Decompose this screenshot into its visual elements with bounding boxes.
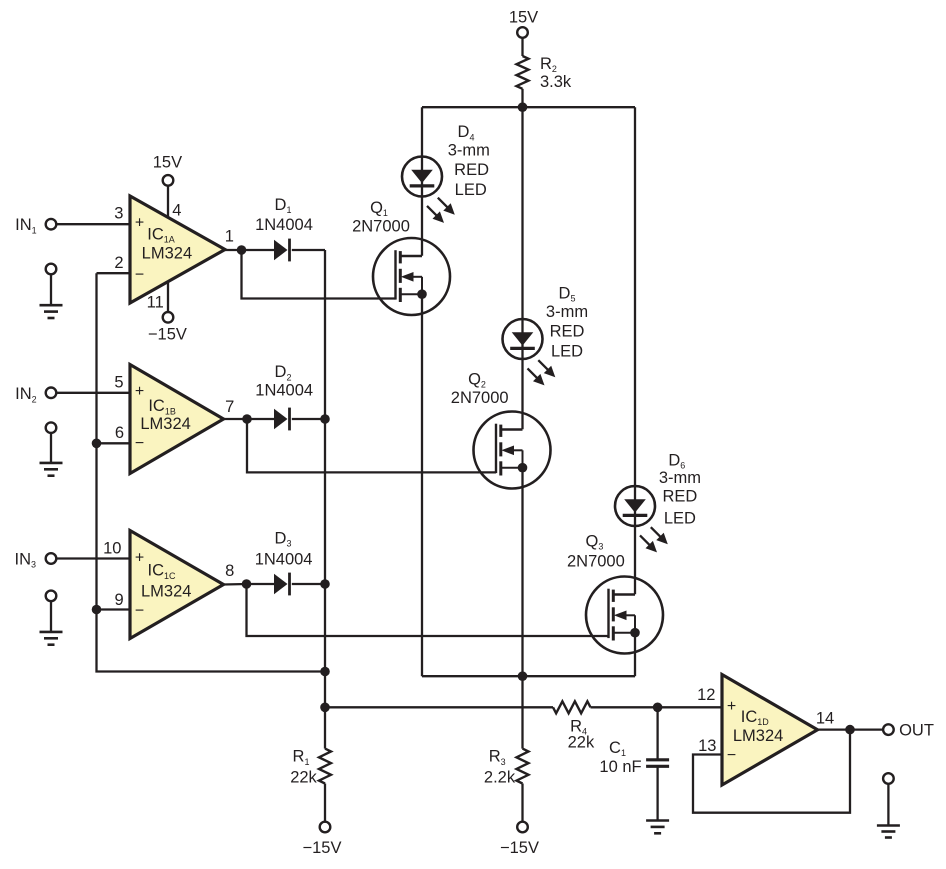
label D5 value [546, 285, 588, 361]
wire Q1 source down [421, 294, 423, 676]
svg-text:11: 11 [147, 293, 164, 311]
label pin 9 [115, 591, 124, 609]
svg-text:3-mm: 3-mm [448, 142, 490, 160]
svg-text:−: − [727, 747, 736, 764]
label Q3 value [567, 532, 625, 570]
label pin 3 [114, 205, 123, 223]
svg-text:1: 1 [225, 228, 234, 246]
wire IC1B output [224, 418, 248, 420]
label D6 value [659, 452, 701, 528]
svg-text:−15V: −15V [303, 839, 342, 857]
resistor R1 [290, 748, 331, 787]
terminal IN1 [15, 216, 56, 235]
wire R1 to -15V [324, 784, 326, 822]
wire IN2 to pin 5 [56, 392, 129, 394]
svg-text:−15V: −15V [500, 839, 539, 857]
label pin 2 [114, 254, 123, 272]
svg-text:−: − [135, 435, 144, 452]
node cathode bus to node rail junction [320, 703, 330, 713]
wire diode cathode bus [324, 250, 326, 749]
op-amp IC1A [130, 196, 225, 303]
op-amp IC1D [722, 675, 818, 786]
wire source rail [422, 675, 635, 677]
node bus-cathode junction [320, 667, 330, 677]
node IC1B output junction [242, 414, 252, 424]
svg-text:RED: RED [454, 161, 489, 179]
svg-text:D1: D1 [275, 196, 292, 215]
svg-text:2N7000: 2N7000 [451, 389, 509, 407]
label D1 value [255, 196, 313, 234]
transistor Q3 [586, 577, 663, 654]
wire D2 cathode to bus [292, 418, 325, 420]
svg-text:−: − [135, 603, 144, 620]
label pin 12 [697, 686, 715, 704]
svg-text:LED: LED [551, 343, 583, 361]
svg-text:9: 9 [115, 591, 124, 609]
label D2 value [255, 363, 313, 399]
svg-text:22k: 22k [568, 734, 595, 752]
wire top rail [422, 106, 635, 108]
svg-text:2N7000: 2N7000 [352, 217, 410, 235]
label pin 6 [115, 424, 124, 442]
node top rail junction [518, 102, 528, 112]
label pin 7 [225, 398, 234, 416]
label pin 5 [114, 373, 123, 391]
capacitor C1 [599, 739, 669, 776]
label Q1 value [352, 199, 410, 236]
wire D3 cathode to bus [292, 583, 325, 585]
ground G3 [40, 591, 63, 645]
svg-text:D3: D3 [275, 529, 292, 548]
label pin 4 [172, 202, 181, 220]
svg-text:LM324: LM324 [141, 582, 191, 600]
svg-text:2N7000: 2N7000 [567, 553, 625, 571]
power terminal -15V (R1) [303, 822, 342, 857]
svg-text:1N4004: 1N4004 [255, 382, 313, 400]
wire D1 cathode to bus [292, 249, 325, 251]
svg-text:14: 14 [816, 710, 834, 728]
svg-text:D2: D2 [275, 363, 292, 382]
wire top rail to D4 [421, 107, 423, 256]
svg-text:−: − [135, 267, 144, 284]
wire mid rail to D5/Q2 drain [521, 107, 523, 429]
svg-text:+: + [135, 383, 144, 400]
wire to D1 anode [242, 249, 275, 251]
wire 15V terminal to R2 [521, 38, 523, 56]
svg-text:15V: 15V [509, 9, 538, 27]
wire to D2 anode [247, 418, 274, 420]
label D3 value [255, 529, 313, 568]
label pin 13 [698, 737, 716, 755]
wire pin 2 [97, 272, 130, 274]
svg-text:C1: C1 [609, 739, 626, 758]
svg-text:LED: LED [455, 181, 487, 199]
wire IC1D output [818, 728, 884, 730]
ground G1 [40, 264, 63, 318]
power terminal 15V (IC1A) [153, 153, 182, 218]
svg-text:22k: 22k [290, 769, 317, 787]
svg-text:D4: D4 [458, 123, 475, 142]
ground (OUT) [877, 773, 900, 837]
wire node rail right [591, 706, 723, 708]
node C1 junction [653, 703, 663, 713]
svg-text:3.3k: 3.3k [540, 73, 572, 91]
svg-text:+: + [135, 215, 144, 232]
svg-text:2: 2 [114, 254, 123, 272]
wire Q1 gate feedback [242, 250, 396, 299]
svg-text:+: + [727, 698, 736, 715]
wire IN3 to pin 10 [56, 557, 129, 559]
label pin 10 [103, 539, 121, 557]
svg-text:RED: RED [662, 487, 697, 505]
op-amp IC1B [130, 365, 224, 474]
svg-text:OUT: OUT [899, 722, 934, 740]
svg-text:1N4004: 1N4004 [255, 216, 313, 234]
wire pin 6 [97, 442, 130, 444]
diode D1 [274, 239, 290, 262]
ground (C1) [646, 821, 669, 834]
wire source rail to R3 [521, 676, 523, 748]
svg-text:LM324: LM324 [142, 244, 192, 262]
wire Q2 source down [521, 468, 523, 677]
wire IC1C output [224, 583, 247, 586]
wire to C1 [656, 707, 658, 760]
svg-text:12: 12 [697, 686, 715, 704]
node IC1D output junction [845, 725, 855, 735]
svg-text:7: 7 [225, 398, 234, 416]
svg-text:D5: D5 [559, 285, 576, 304]
svg-text:5: 5 [114, 373, 123, 391]
svg-text:LM324: LM324 [733, 727, 783, 745]
svg-text:Q3: Q3 [585, 532, 603, 551]
svg-text:15V: 15V [153, 153, 182, 171]
node IC1A output junction [237, 245, 247, 255]
power terminal 15V (top) [509, 9, 538, 38]
power terminal -15V (R3) [500, 822, 539, 857]
svg-text:RED: RED [550, 322, 585, 340]
resistor R2 [517, 55, 572, 91]
resistor R4 [553, 701, 595, 751]
label pin 11 [147, 293, 164, 311]
wire Q3 source down [634, 633, 636, 677]
svg-text:D6: D6 [668, 452, 685, 471]
svg-text:R3: R3 [489, 748, 506, 767]
power terminal -15V (IC1A) [148, 281, 187, 344]
svg-text:3: 3 [114, 205, 123, 223]
wire to D3 anode [247, 583, 275, 585]
svg-text:4: 4 [172, 202, 181, 220]
wire R3 to -15V [521, 784, 523, 822]
svg-text:IN1: IN1 [15, 216, 37, 235]
svg-text:8: 8 [225, 562, 234, 580]
node bus-pin9 junction [92, 605, 102, 615]
node D3 cathode junction [320, 579, 330, 589]
node bus-pin6 junction [92, 439, 102, 449]
transistor Q1 [373, 238, 450, 315]
svg-text:LM324: LM324 [140, 415, 190, 433]
ground G2 [40, 422, 63, 475]
svg-text:1N4004: 1N4004 [255, 551, 313, 569]
svg-text:10 nF: 10 nF [599, 758, 641, 776]
diode D3 [274, 573, 290, 596]
label pin 1 [225, 228, 234, 246]
resistor R3 [484, 748, 529, 787]
wire left feedback bus [97, 273, 326, 671]
wire Q2 gate feedback [247, 419, 496, 472]
terminal IN3 [15, 551, 57, 570]
wire C1 to ground [656, 766, 658, 820]
svg-text:3-mm: 3-mm [546, 303, 588, 321]
svg-text:13: 13 [698, 737, 716, 755]
svg-text:LED: LED [664, 510, 696, 528]
terminal IN2 [15, 385, 56, 404]
svg-text:IN2: IN2 [15, 385, 37, 404]
wire right rail to D6 [634, 107, 636, 594]
node IC1C output junction [242, 579, 252, 589]
svg-text:2.2k: 2.2k [484, 769, 516, 787]
wire IC1A output [225, 249, 242, 251]
svg-text:+: + [135, 549, 144, 566]
wire IC1D feedback loop [693, 730, 850, 813]
wire IN1 to pin 3 [56, 223, 129, 225]
label pin 14 [816, 710, 834, 728]
svg-text:10: 10 [103, 539, 121, 557]
wire Q3 gate feedback [247, 584, 609, 636]
svg-text:−15V: −15V [148, 326, 187, 344]
diode D2 [274, 408, 290, 431]
svg-text:6: 6 [115, 424, 124, 442]
wire node rail left [325, 706, 553, 708]
label Q2 value [451, 371, 509, 408]
svg-text:IN3: IN3 [15, 551, 37, 570]
svg-text:3-mm: 3-mm [659, 469, 701, 487]
LED D4 [402, 157, 455, 223]
terminal OUT [883, 722, 934, 740]
LED D6 [615, 486, 668, 552]
svg-text:Q2: Q2 [468, 371, 486, 390]
wire pin 9 [97, 608, 130, 610]
node D2 cathode junction [320, 414, 330, 424]
transistor Q2 [474, 412, 551, 489]
label pin 8 [225, 562, 234, 580]
svg-text:Q1: Q1 [370, 199, 388, 218]
label D4 value [448, 123, 490, 199]
svg-text:R2: R2 [540, 55, 557, 74]
wire R2 to top rail [521, 89, 523, 107]
op-amp IC1C [130, 531, 224, 639]
LED D5 [503, 319, 556, 385]
node source rail junction [518, 671, 528, 681]
svg-text:R1: R1 [293, 748, 310, 767]
